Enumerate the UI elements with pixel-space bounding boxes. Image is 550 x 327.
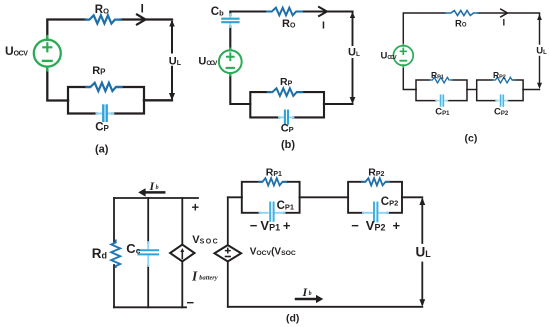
resistor Ro (b) (267, 8, 302, 16)
RC block1 box (c) (416, 80, 467, 101)
left loop top wire (d) (114, 197, 198, 199)
svg-text:+: + (192, 200, 200, 215)
wire: RC block right to UL line (b) (324, 103, 353, 105)
svg-text:RO: RO (95, 4, 109, 16)
svg-text:CP: CP (95, 122, 109, 134)
svg-text:RO: RO (282, 18, 296, 30)
svg-text:RP2: RP2 (493, 70, 506, 80)
bottom wire right loop (d) (228, 306, 422, 308)
resistor Rp1 (c) (430, 77, 453, 83)
RC block2 box (c) (477, 80, 523, 101)
voltage source U_OCV (c) (393, 44, 413, 67)
wire: Cb top corner to Ro (b) (230, 12, 267, 16)
voltage source U_OCV (a) (34, 36, 61, 70)
wire: source bottom to RC block (a) (47, 69, 68, 101)
svg-text:Ibattery: Ibattery (191, 269, 218, 284)
resistor Ro (a) (86, 15, 121, 23)
Ib current arrow top (d) (138, 188, 164, 196)
left loop bottom wire (d) (114, 306, 186, 308)
Cc branch wire upper (d) (147, 198, 149, 243)
resistor Rp1 (d) (259, 178, 286, 185)
wire: Cb bottom to source top (b) (229, 26, 231, 50)
svg-text:UL: UL (536, 45, 547, 56)
wire: source top to Ro (a) (47, 20, 86, 38)
UL arrow lower (d) (419, 263, 425, 307)
RC block1 box (d) (242, 182, 300, 213)
svg-text:CP2: CP2 (381, 196, 399, 208)
svg-text:CP: CP (281, 123, 294, 135)
svg-text:UL: UL (169, 56, 182, 68)
svg-text:(b): (b) (281, 139, 295, 151)
svg-text:RO: RO (455, 18, 467, 29)
capacitor Cp1 (d) (260, 203, 285, 221)
RC block box (a) (68, 87, 144, 114)
svg-text:VOCV(VSOC: VOCV(VSOC (250, 247, 296, 258)
dependent source diamond Vsoc (d) (170, 245, 194, 262)
svg-text:Cc: Cc (126, 241, 140, 256)
capacitor Cp2 (d) (363, 203, 388, 222)
voltage source U_OCV (b) (219, 49, 242, 76)
svg-text:CP2: CP2 (494, 107, 509, 118)
svg-text:CP1: CP1 (277, 200, 295, 212)
svg-text:UOCV: UOCV (5, 44, 28, 58)
Vsoc branch wire upper (d) (181, 198, 183, 245)
svg-text:−VP2+: −VP2+ (351, 218, 400, 233)
svg-text:UL: UL (348, 47, 360, 59)
wire: source top to Ro (c) (403, 13, 445, 46)
resistor Rp2 (c) (493, 77, 516, 83)
svg-text:Ib: Ib (302, 285, 312, 299)
UL double arrow (a) (169, 20, 175, 100)
UL arrow upper (d) (419, 197, 425, 243)
svg-text:RP1: RP1 (266, 166, 282, 178)
svg-text:UOCV: UOCV (198, 55, 218, 67)
svg-text:(a): (a) (95, 143, 109, 155)
capacitor Cp (a) (97, 106, 114, 121)
UL arrow line lower with down arrowhead (c) (537, 57, 542, 90)
current arrow I (a) (137, 15, 146, 25)
wire: RC block1 to RC block2 (c) (467, 89, 477, 91)
Rd branch wire lower (d) (113, 265, 115, 307)
svg-text:Rd: Rd (92, 246, 107, 261)
RC block box (b) (250, 92, 324, 117)
svg-text:Ib: Ib (149, 179, 159, 193)
capacitor Cp (b) (279, 111, 294, 124)
current arrow I (c) (501, 9, 508, 17)
wire: main branch to RC block1 (d) (228, 196, 242, 198)
svg-text:(c): (c) (465, 133, 478, 145)
svg-text:I: I (141, 4, 144, 16)
resistor Rp2 (d) (362, 178, 389, 185)
svg-text:I: I (322, 19, 325, 31)
wire: RC block2 right to UL arrow (c) (523, 89, 539, 91)
capacitor Cp2 (c) (496, 95, 508, 106)
svg-text:RP: RP (92, 65, 106, 77)
svg-text:−: − (187, 295, 195, 310)
svg-text:(d): (d) (286, 313, 299, 325)
svg-text:Cb: Cb (211, 6, 224, 18)
capacitor Cc (d) (139, 242, 159, 266)
Vsoc branch wire lower (d) (181, 261, 183, 307)
svg-text:RP1: RP1 (431, 70, 444, 80)
svg-text:CP1: CP1 (435, 107, 450, 118)
svg-text:RP2: RP2 (368, 166, 384, 178)
wire: source bottom to RC block 1 (c) (403, 66, 416, 90)
dependent source diamond Vocv (d) (215, 245, 242, 261)
UL double arrow (b) (350, 12, 356, 104)
Ib current arrow bottom (d) (296, 295, 323, 303)
RC block2 box (d) (348, 182, 402, 213)
resistor Rp (a) (87, 83, 122, 91)
svg-text:RP: RP (280, 76, 293, 88)
wire: Ro to top-right corner (b) (302, 10, 353, 12)
UL arrow line upper (c) (537, 14, 542, 44)
svg-text:VSOC: VSOC (192, 234, 217, 246)
resistor Rd (d) (111, 241, 120, 268)
svg-text:UL: UL (416, 245, 432, 260)
capacitor Cp1 (c) (436, 95, 448, 106)
Cc branch wire lower (d) (147, 266, 149, 308)
wire: source bottom to RC block (b) (230, 74, 250, 105)
wire: RC block2 to UL arrow (d) (402, 196, 422, 198)
Rd branch wire upper (d) (113, 198, 115, 242)
wire: RC block right to UL line (a) (144, 99, 172, 101)
svg-text:I: I (503, 18, 506, 29)
wire: Ro to top-right corner (a) (121, 18, 173, 20)
resistor Ro (c) (446, 11, 479, 16)
main branch vertical wire lower (d) (227, 262, 229, 307)
resistor Rp (b) (268, 88, 302, 96)
capacitor Cb (b) (222, 14, 238, 27)
main branch vertical wire upper (d) (227, 197, 229, 245)
wire: Ro to top-right corner (c) (478, 12, 540, 14)
wire: RC block1 to RC block2 (d) (300, 196, 349, 198)
current arrow I (b) (319, 7, 327, 16)
